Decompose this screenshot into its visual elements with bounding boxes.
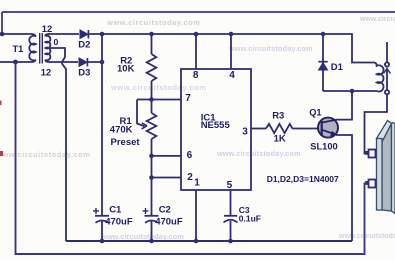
ground rail [66,240,352,242]
node pin2 junction [149,175,154,180]
wire pin6 to pin2 link [151,156,153,178]
capacitor C3 [224,205,262,223]
node D2 junction [100,32,105,37]
svg-text:470uF: 470uF [105,216,133,227]
wire smoothing cap feed [101,62,103,216]
pin 4 lead [230,34,232,69]
transistor Q1 [309,108,338,152]
svg-text:www.circuitstoday.com: www.circuitstoday.com [359,16,395,23]
svg-text:3: 3 [242,126,248,137]
svg-text:C2: C2 [159,205,171,216]
resistor R3 [266,111,292,145]
svg-text:D1: D1 [331,62,344,73]
diode D3 [78,58,90,79]
wire primary bottom lead [0,60,36,63]
svg-text:1: 1 [194,178,200,189]
svg-text:D2: D2 [78,40,90,51]
node collector junction [350,89,355,94]
speaker bell LS1 [365,121,395,214]
svg-text:T1: T1 [13,44,24,54]
node D1 top [321,32,326,37]
wire mains top rail [2,12,395,34]
svg-text:1K: 1K [274,134,286,145]
svg-text:NE555: NE555 [201,120,231,131]
node C2 ground [149,239,154,244]
wire R3 to base [292,128,320,130]
wire collector to relay [337,92,352,120]
svg-text:www.circuitstoday.com: www.circuitstoday.com [100,232,184,241]
wire pin 7 [137,99,181,101]
node C3 ground [228,239,233,244]
node D3 junction [100,60,105,65]
svg-text:www.circuitstoday.com: www.circuitstoday.com [216,149,301,158]
pin 8 lead [195,34,197,69]
svg-text:4: 4 [229,70,235,81]
wire D2 cathode to +V rail across to relay [88,34,372,63]
red watermark fragment left edge middle [0,151,3,156]
pin 1 lead [195,190,197,241]
node R2 top [149,32,154,37]
resistor R1 preset [110,100,157,156]
svg-text:www.circuitstoday.com: www.circuitstoday.com [338,233,395,240]
node pin1 ground [194,239,199,244]
node mains corner [0,32,4,37]
wire mains to bell bottom run [16,62,369,254]
diode D2 [78,30,90,51]
svg-text:D3: D3 [78,68,90,79]
capacitor C2 [143,205,183,242]
wire secondary top to D2 [48,33,79,35]
svg-text:7: 7 [185,93,191,104]
wire emitter to ground [336,135,352,241]
wire pin 2 [152,177,182,179]
svg-text:Preset: Preset [111,137,141,148]
transformer T1 [29,33,50,64]
diode D1 [318,34,343,91]
svg-text:470uF: 470uF [155,216,183,227]
node C1 ground [100,239,105,244]
svg-text:www.circuitstoday.com: www.circuitstoday.com [0,150,91,159]
op-amp U1 555 timer box [181,34,266,241]
svg-text:D1,D2,D3=1N4007: D1,D2,D3=1N4007 [267,174,339,184]
capacitor C1 [93,205,133,242]
svg-text:C1: C1 [109,205,122,216]
wire D3 cathode to rail junction [87,34,102,62]
svg-text:10K: 10K [117,63,135,74]
svg-text:www.circuitstoday.com: www.circuitstoday.com [110,83,207,92]
red watermark fragment left edge upper [0,101,2,106]
relay coil [372,63,384,92]
svg-text:12: 12 [42,24,52,34]
relay contact [384,42,391,94]
wire center tap to ground with crossover hop [46,48,67,241]
pin 3 lead [251,128,267,130]
svg-text:8: 8 [193,70,199,81]
svg-text:R3: R3 [272,111,284,122]
node R2/R1 junction pin7 [149,97,154,102]
svg-text:SL100: SL100 [310,142,337,152]
svg-text:0.1uF: 0.1uF [239,213,261,223]
svg-text:www.circuitstoday.com: www.circuitstoday.com [228,44,313,53]
node pin4 top [229,32,234,37]
resistor R2 [117,34,156,100]
wire relay coil bottom [323,90,372,92]
svg-text:5: 5 [227,180,233,191]
svg-text:470K: 470K [110,125,133,136]
svg-text:12: 12 [41,68,51,78]
wire pin 6 [152,155,182,157]
svg-text:www.circuitstoday.com: www.circuitstoday.com [106,18,200,27]
node pin8 top [194,32,199,37]
svg-text:0: 0 [54,37,59,47]
wire secondary bottom to D3 [48,61,78,63]
svg-text:6: 6 [187,150,193,161]
svg-text:2: 2 [187,172,193,183]
wire pin2 node to C2 [151,178,153,216]
wire primary top lead [2,34,36,37]
pin 5 lead [230,190,232,241]
node mains to bell tap [13,60,18,65]
svg-text:Q1: Q1 [309,108,321,118]
node pin6 junction [149,154,154,159]
wire contact to bell [365,94,388,153]
